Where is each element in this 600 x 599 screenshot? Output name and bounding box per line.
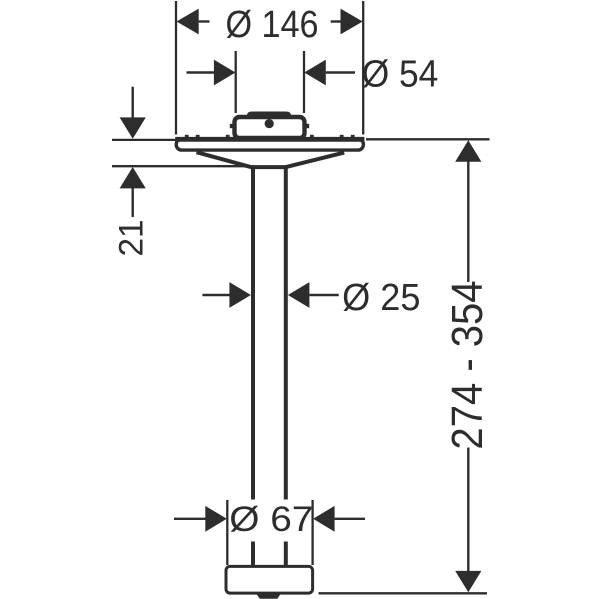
bottom escutcheon — [226, 566, 313, 593]
dim Ø146 left stub — [199, 20, 210, 22]
pipe left wall lower — [251, 542, 255, 567]
dim Ø25 left arrow — [229, 282, 251, 308]
dim Ø146 right stub — [331, 20, 341, 22]
dim Ø54 left tail — [187, 71, 215, 73]
escutcheon bump — [256, 593, 281, 599]
dim Ø67 right extension line — [311, 500, 313, 565]
dim 274-354 lower line — [467, 448, 469, 572]
dim 274-354 top extension line — [366, 138, 490, 140]
dim Ø25 right tail — [309, 294, 338, 296]
dim Ø25 right arrow — [288, 282, 310, 308]
dim 21 top extension line — [112, 139, 176, 141]
plate top bump 4 — [310, 135, 314, 138]
dim Ø54 left extension line — [235, 51, 237, 113]
pipe right wall upper — [284, 167, 288, 500]
plate top bump 1 — [185, 135, 189, 138]
dim Ø67 right tail — [335, 518, 365, 520]
box left notch — [230, 124, 233, 128]
svg-text:274 - 354: 274 - 354 — [442, 280, 491, 449]
dim 274-354 bottom extension line — [319, 592, 488, 594]
pipe left wall upper — [251, 167, 255, 500]
dim 274-354 top arrow — [455, 140, 481, 161]
dim Ø146 left arrow — [177, 9, 199, 35]
svg-text:Ø 146: Ø 146 — [225, 2, 318, 45]
dim 21 top arrow — [120, 117, 146, 138]
plate top bump 2 — [196, 135, 200, 138]
screw dot — [265, 119, 274, 128]
dim Ø54 left arrow — [214, 60, 236, 86]
dim Ø54 right tail — [326, 71, 355, 73]
svg-text:Ø 54: Ø 54 — [362, 52, 439, 94]
dim 21 bottom arrow line — [131, 188, 133, 217]
dim Ø146 left extension line — [175, 1, 177, 135]
pipe right wall lower — [284, 542, 288, 567]
dim 21 top arrow line — [131, 87, 133, 118]
dim Ø146 right arrow — [341, 9, 363, 35]
box tab — [247, 112, 291, 118]
dim 274-354 upper line — [467, 162, 469, 283]
dim Ø146 right extension line — [362, 1, 364, 135]
dim Ø67 left arrow — [205, 506, 227, 532]
dim Ø25 left tail — [202, 294, 230, 296]
dim 274-354 bottom arrow — [455, 571, 481, 592]
dim Ø54 right arrow — [304, 60, 326, 86]
plate top bump 6 — [351, 135, 355, 138]
skirt taper — [197, 152, 345, 167]
connector box U — [235, 117, 305, 138]
box right notch — [306, 124, 309, 128]
plate top bump 3 — [226, 135, 230, 138]
ceiling plate — [175, 139, 364, 150]
dim 21 bottom arrow — [120, 167, 146, 188]
svg-text:21: 21 — [113, 219, 150, 256]
dim 21 bottom extension line — [112, 165, 252, 167]
dim Ø67 left tail — [174, 518, 206, 520]
dim Ø67 left extension line — [226, 500, 228, 565]
svg-text:Ø 67: Ø 67 — [229, 500, 313, 539]
dim Ø54 right extension line — [303, 51, 305, 113]
plate top bump 5 — [340, 135, 344, 138]
dim Ø67 right arrow — [313, 506, 335, 532]
svg-text:Ø 25: Ø 25 — [342, 275, 420, 318]
